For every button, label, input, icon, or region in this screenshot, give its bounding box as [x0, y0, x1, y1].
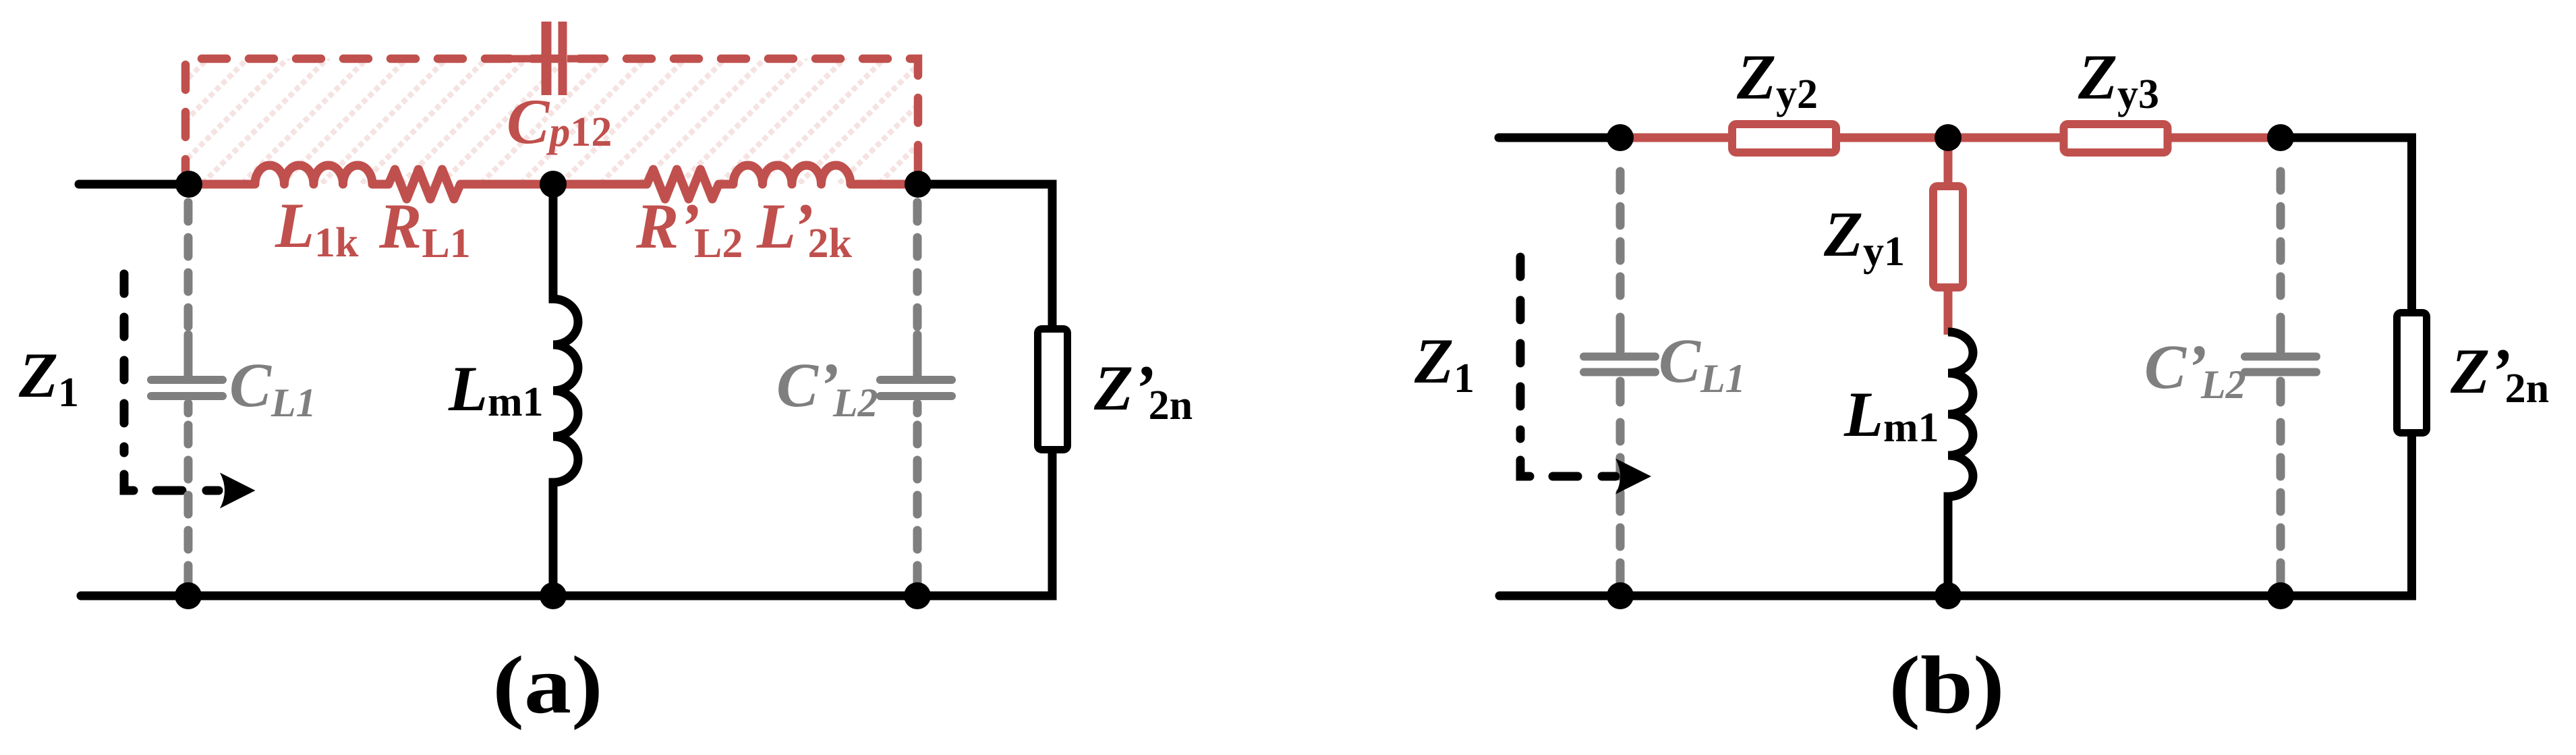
node Z1 measurement bracket (dashed): [124, 274, 219, 491]
svg-text:CL1: CL1: [229, 351, 316, 425]
svg-text:Lm1: Lm1: [448, 353, 544, 425]
node b-bot-left: [1607, 582, 1634, 609]
node b-bot-mid: [1935, 582, 1962, 609]
svg-text:Zy2: Zy2: [1736, 41, 1818, 117]
node b-bot-right: [2267, 582, 2294, 609]
impedance box Z'2n (a): [1038, 329, 1068, 450]
node a-top-left: [175, 171, 202, 198]
svg-text:R’L2: R’L2: [635, 190, 743, 267]
capacitor Cp12: [502, 22, 584, 95]
node a-top-mid: [540, 171, 567, 198]
node a-bot-right: [904, 582, 931, 609]
inductor L1k, resistor RL1, resistor R'L2, inductor L'2k (red series branch): [189, 165, 918, 199]
svg-text:Z’2n: Z’2n: [2450, 335, 2549, 412]
svg-text:(b): (b): [1889, 640, 2004, 731]
inductor Lm1 (b): [1948, 332, 1973, 596]
node Z1 measurement bracket (b): [1520, 257, 1615, 476]
svg-text:Zy1: Zy1: [1823, 198, 1905, 275]
impedance box Zy1: [1933, 186, 1963, 287]
capacitor C'L2 (gray, dashed lead): [880, 202, 952, 596]
svg-text:CL1: CL1: [1659, 327, 1746, 401]
red wires joining Zy2 / Zy3: [1620, 138, 2281, 335]
svg-text:Zy3: Zy3: [2078, 41, 2159, 117]
capacitor C'L2 (b): [2245, 171, 2316, 596]
arrow head of Z1 bracket (b): [1615, 459, 1651, 495]
svg-text:Cp12: Cp12: [507, 86, 612, 157]
impedance box Zy3: [2064, 124, 2168, 152]
wire: bottom rail (b): [1499, 437, 2412, 596]
svg-text:(a): (a): [492, 640, 603, 731]
svg-text:L’2k: L’2k: [756, 190, 852, 267]
node a-bot-mid: [540, 582, 567, 609]
wire: top-right to Z'2n: [918, 184, 1052, 325]
impedance box Z'2n (b): [2397, 313, 2427, 433]
wire: top-left input (b): [1499, 134, 1620, 142]
capacitor CL1 (b): [1584, 171, 1655, 596]
impedance box Zy2: [1732, 124, 1836, 152]
dashed red boundary of parasitic coupling region: [185, 59, 918, 184]
svg-text:Z’2n: Z’2n: [1093, 352, 1193, 428]
wire: top-left input (a): [79, 180, 189, 189]
wire: bottom rail (a): [81, 453, 1052, 596]
svg-text:Z1: Z1: [18, 339, 79, 416]
arrow head of Z1 bracket: [220, 473, 256, 509]
capacitor CL1 (gray, dashed lead): [151, 202, 223, 596]
inductor Lm1: [553, 184, 578, 596]
svg-text:C’L2: C’L2: [776, 351, 878, 425]
svg-text:C’L2: C’L2: [2144, 333, 2246, 407]
wire: top-right to Z'2n (b): [2281, 138, 2412, 309]
svg-text:Lm1: Lm1: [1843, 379, 1939, 451]
node b-top-right: [2267, 124, 2294, 151]
svg-text:L1k: L1k: [275, 190, 359, 266]
svg-text:Z1: Z1: [1414, 325, 1475, 401]
node b-top-left: [1607, 124, 1634, 151]
node a-bot-left: [175, 582, 202, 609]
node a-top-right: [905, 171, 932, 198]
node b-top-mid: [1935, 124, 1962, 151]
